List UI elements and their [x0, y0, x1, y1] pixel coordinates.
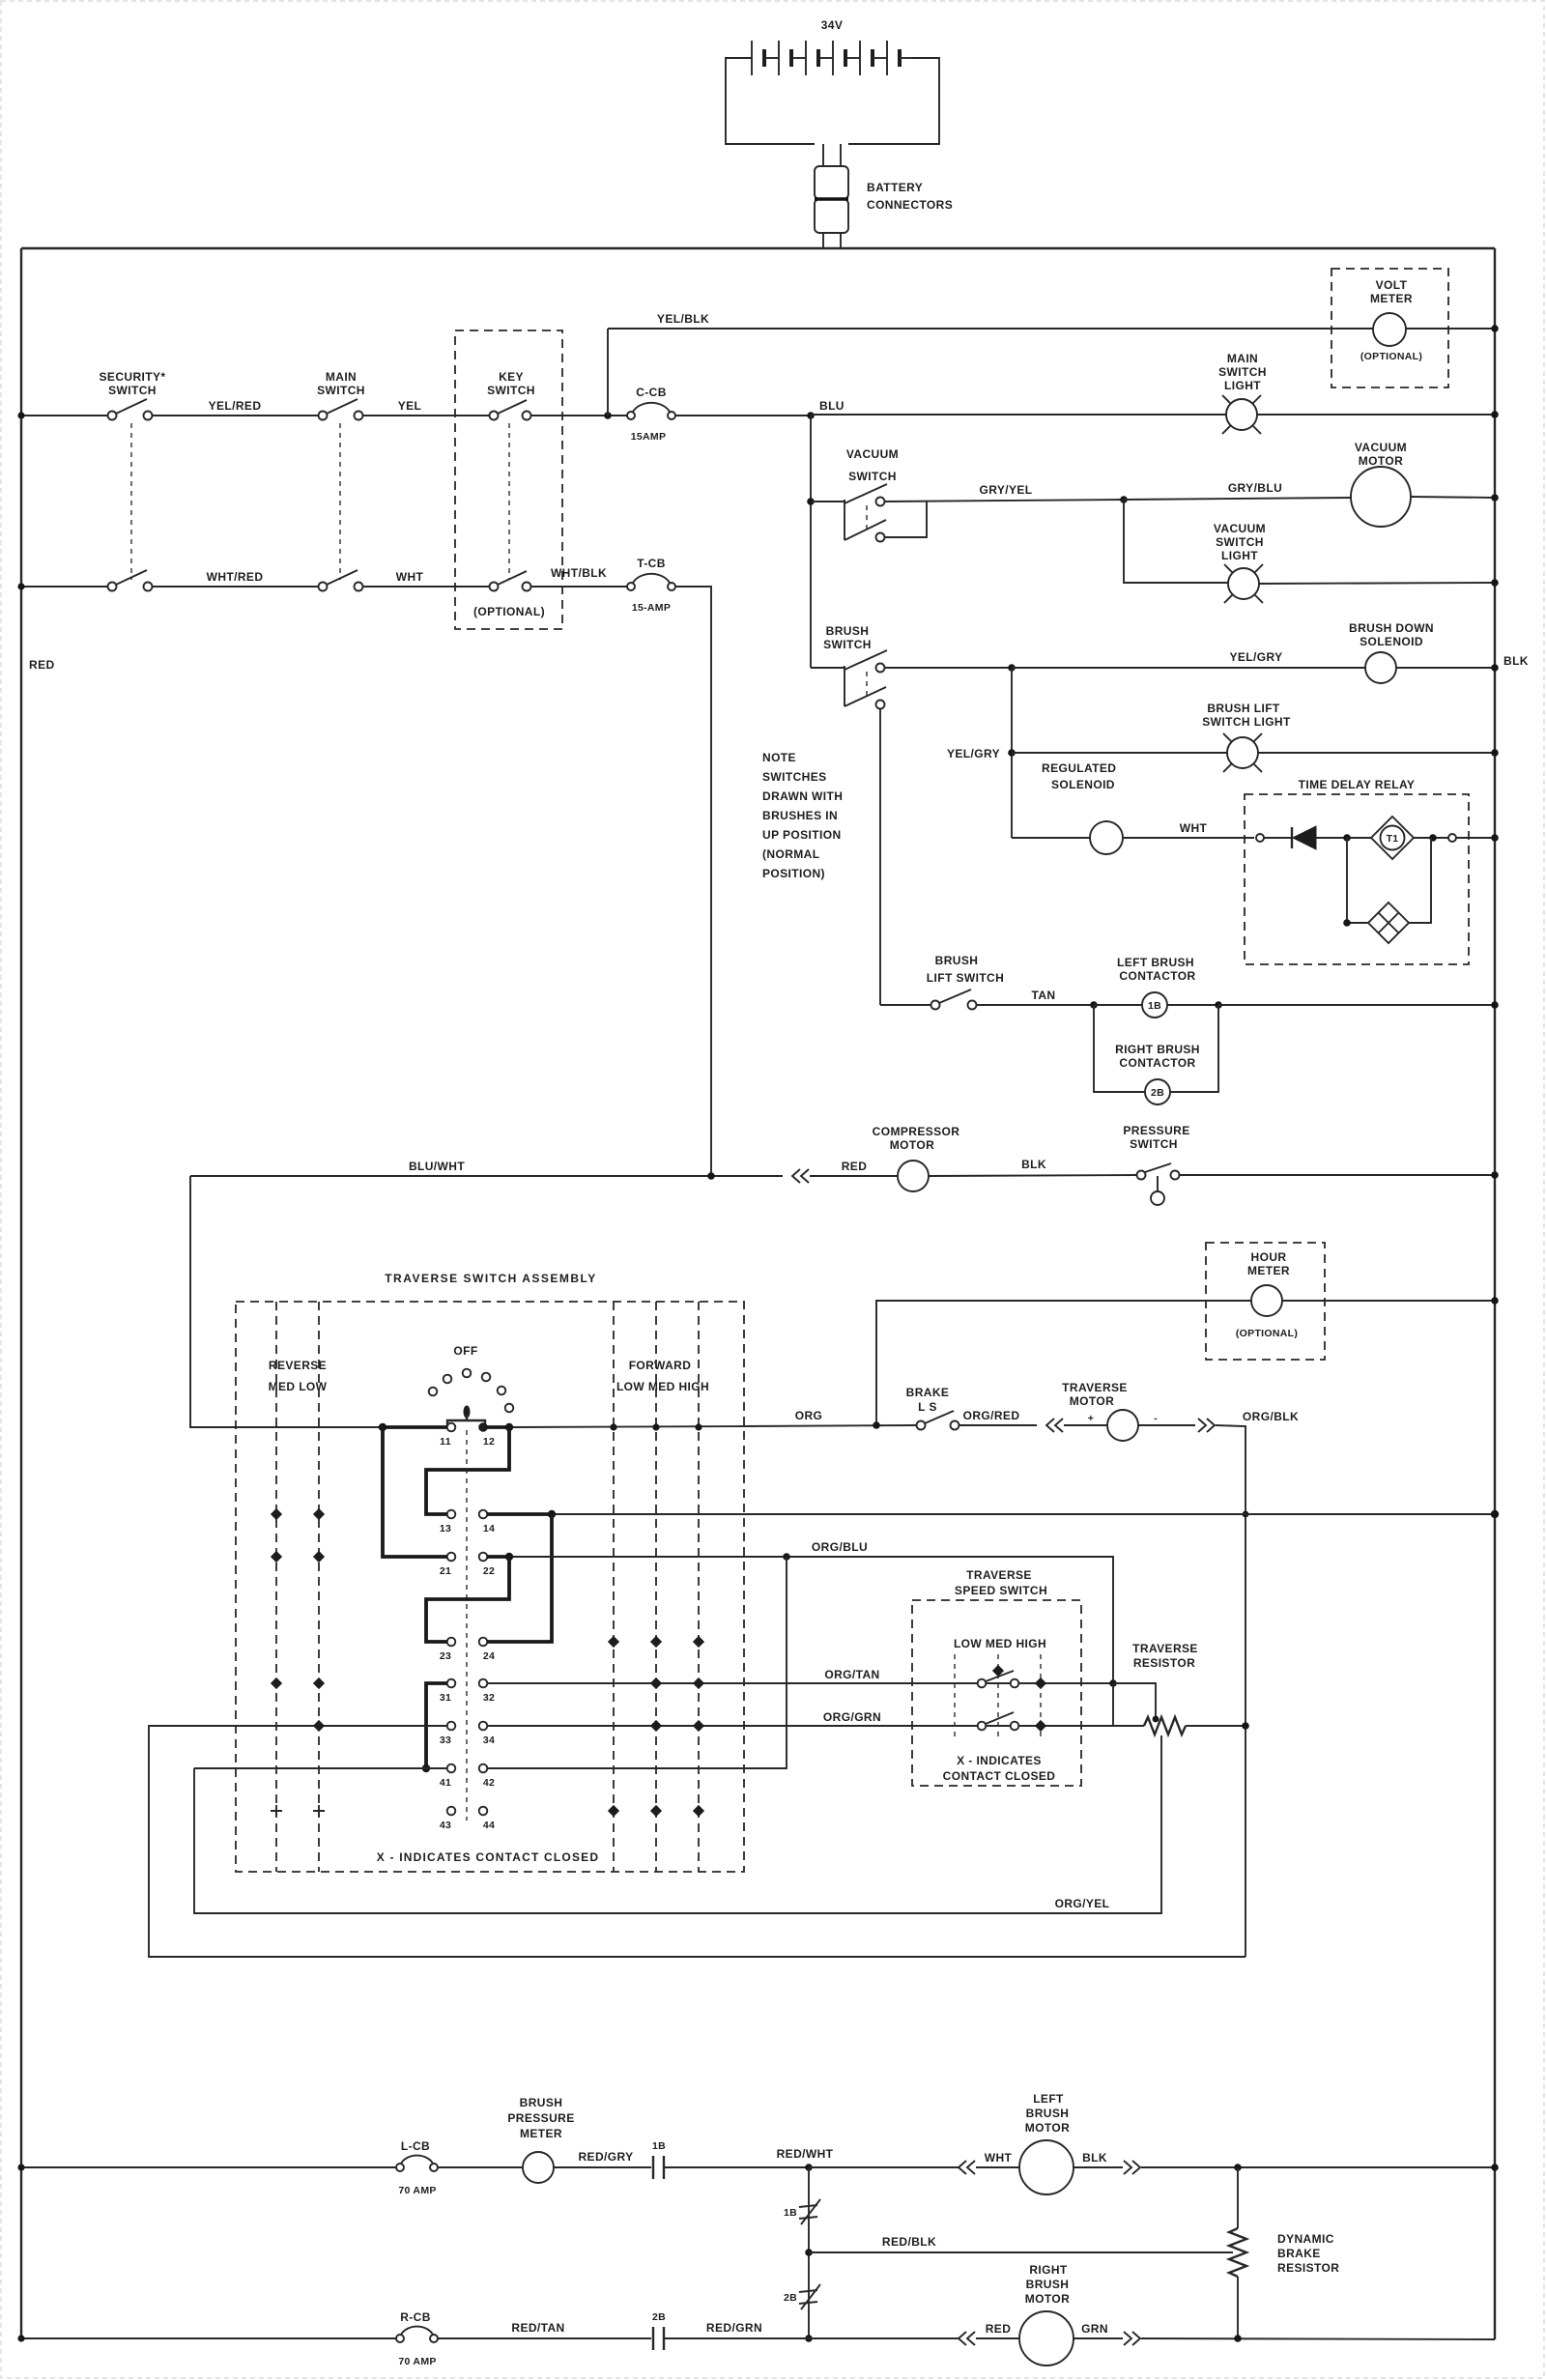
wire BLU/WHT line [190, 1175, 783, 1177]
contact 2B normally closed [799, 2284, 820, 2309]
motor traverse motor [1107, 1410, 1138, 1441]
node junction contactor left [1090, 1001, 1098, 1009]
wire YEL/BLK volt meter line [608, 328, 1495, 330]
svg-text:GRY/BLU: GRY/BLU [1228, 481, 1282, 495]
volt meter dashed box [1331, 269, 1448, 387]
wire right brush contactor loop left [1094, 1005, 1145, 1092]
label pins 13 14 [440, 1523, 495, 1534]
svg-text:24: 24 [483, 1650, 495, 1662]
svg-text:DYNAMIC: DYNAMIC [1277, 2232, 1334, 2246]
svg-text:ORG/RED: ORG/RED [963, 1409, 1020, 1422]
svg-text:YEL: YEL [398, 399, 422, 413]
svg-text:BLK: BLK [1503, 654, 1529, 668]
wire left motor to right bus [1141, 2166, 1495, 2168]
wire rotor common row 11 left [379, 1425, 447, 1429]
contact 2B normally open [653, 2327, 664, 2350]
wire link ORG/TAN to ORG/GRN row [1112, 1683, 1114, 1726]
svg-text:CONTACTOR: CONTACTOR [1119, 969, 1195, 983]
switch S3 key switch pole 1 [490, 400, 531, 420]
battery cell 4 [833, 41, 860, 75]
linkage security switch [130, 423, 132, 580]
wire WHT [363, 586, 490, 588]
svg-text:RED: RED [986, 2322, 1012, 2336]
svg-text:RED/GRY: RED/GRY [578, 2150, 633, 2164]
svg-text:T1: T1 [1387, 833, 1399, 845]
label pins 41 42 [440, 1777, 495, 1789]
svg-text:REGULATED: REGULATED [1042, 761, 1116, 775]
svg-text:MAIN: MAIN [1227, 352, 1258, 365]
svg-text:ORG/YEL: ORG/YEL [1055, 1897, 1110, 1910]
svg-text:OFF: OFF [453, 1344, 477, 1358]
svg-text:TRAVERSE SWITCH ASSEMBLY: TRAVERSE SWITCH ASSEMBLY [385, 1272, 597, 1285]
wire R-CB row left [21, 2337, 396, 2339]
svg-text:2B: 2B [1151, 1087, 1164, 1099]
wire TDR heater branch right [1409, 838, 1431, 923]
svg-text:+: + [1088, 1413, 1094, 1424]
wire row2 left bus to security pole2 [21, 586, 108, 588]
contact pair 21-22 [447, 1553, 488, 1562]
svg-text:RIGHT: RIGHT [1029, 2263, 1068, 2277]
battery connector mating line [815, 197, 848, 200]
svg-text:TIME DELAY RELAY: TIME DELAY RELAY [1299, 778, 1416, 791]
svg-text:31: 31 [440, 1692, 451, 1704]
label compressor motor [873, 1125, 960, 1152]
switch speed switch pole1 [978, 1671, 1019, 1687]
wire hour meter to right bus [1282, 1300, 1495, 1302]
wire vacuum switch light to right bus [1259, 583, 1495, 584]
svg-text:1B: 1B [652, 2140, 666, 2152]
node junction RED/BLK [805, 2249, 813, 2256]
svg-text:HOUR: HOUR [1251, 1250, 1287, 1264]
contact pair 31-32 [447, 1679, 488, 1688]
matrix dashed column forward med [655, 1302, 657, 1872]
wire left riser BLU/WHT to ORG row [190, 1176, 379, 1427]
breaker L-CB [396, 2156, 438, 2171]
wire zigzag 22 to 23 [426, 1557, 509, 1642]
node junction right bus left motor row [1491, 2164, 1499, 2171]
svg-text:VACUUM: VACUUM [1355, 441, 1407, 454]
wire RED/WHT [664, 2166, 809, 2168]
wire left bus [20, 248, 22, 2338]
svg-text:CONNECTORS: CONNECTORS [867, 198, 953, 212]
contact 1B normally open [653, 2156, 664, 2179]
svg-text:SWITCH: SWITCH [848, 470, 897, 483]
wire RED to compressor motor [810, 1175, 898, 1177]
traverse speed switch dashed box [912, 1600, 1081, 1786]
svg-text:SWITCH: SWITCH [1130, 1137, 1178, 1151]
wire row41 left loop ORG/YEL [194, 1735, 1161, 1913]
contact pair 33-34 [447, 1722, 488, 1731]
label main switch light [1218, 352, 1267, 392]
svg-text:SWITCH: SWITCH [317, 384, 365, 397]
wire contactor line to right bus [1218, 1004, 1495, 1006]
wire BLU line to main switch light [811, 414, 1226, 416]
connector plug right brush motor right [1124, 2332, 1140, 2345]
svg-text:TRAVERSE: TRAVERSE [1132, 1642, 1198, 1655]
matrix dashed column reverse med [275, 1302, 277, 1872]
svg-text:ORG/BLK: ORG/BLK [1243, 1410, 1299, 1423]
svg-text:R-CB: R-CB [400, 2310, 431, 2324]
svg-text:LEFT BRUSH: LEFT BRUSH [1117, 956, 1194, 969]
wire brush switch to YEL/GRY junction [885, 667, 1012, 669]
wire YEL/GRY to brush down solenoid [1012, 667, 1365, 669]
wire RED/GRY [554, 2166, 651, 2168]
svg-text:(OPTIONAL): (OPTIONAL) [1236, 1328, 1298, 1339]
lamp vacuum switch light [1224, 564, 1263, 603]
switch speed switch pole2 [978, 1712, 1019, 1730]
matrix dashed column forward low [613, 1302, 615, 1872]
svg-text:YEL/GRY: YEL/GRY [947, 747, 1000, 760]
label reverse med low [269, 1359, 328, 1393]
svg-text:SWITCH LIGHT: SWITCH LIGHT [1202, 715, 1291, 729]
svg-text:VOLT: VOLT [1376, 278, 1408, 292]
resistor traverse resistor [1144, 1717, 1186, 1735]
svg-text:44: 44 [483, 1820, 495, 1831]
svg-text:MOTOR: MOTOR [890, 1138, 934, 1152]
wire row41 line [194, 1767, 447, 1769]
label brush lift switch [927, 954, 1004, 985]
switch S1 security pole 2 [108, 570, 153, 591]
breaker R-CB [396, 2327, 438, 2342]
wire vacuum branch riser [810, 416, 812, 668]
wire 14 to junction [487, 1512, 552, 1516]
rotary switch position circles [429, 1369, 514, 1413]
wire to brush lift switch [880, 1004, 930, 1006]
node junction YEL/BLK riser [604, 412, 612, 419]
node junction TDR right [1429, 834, 1437, 842]
node junction hour meter drop [873, 1421, 880, 1429]
svg-text:BLK: BLK [1021, 1158, 1046, 1171]
battery connectors label [867, 181, 953, 212]
svg-text:MOTOR: MOTOR [1359, 454, 1403, 468]
svg-text:SOLENOID: SOLENOID [1360, 635, 1423, 648]
connector plug compressor left [792, 1169, 809, 1183]
time delay relay dashed box [1245, 794, 1469, 964]
wire pressure switch to right bus [1180, 1174, 1495, 1176]
node junction vacuum switch top [807, 498, 815, 505]
wire GRY/YEL [885, 500, 1124, 502]
linkage brush switch [866, 672, 868, 696]
wire row1 left bus to security switch [21, 415, 108, 416]
meter volt meter [1373, 313, 1406, 346]
wire solenoid to right bus [1396, 667, 1495, 669]
switch vacuum switch pole2 [845, 502, 927, 542]
svg-text:GRY/YEL: GRY/YEL [979, 483, 1032, 497]
svg-text:CONTACTOR: CONTACTOR [1119, 1056, 1195, 1070]
switch vacuum switch pole1 [811, 484, 887, 540]
wire key switch to C-CB [531, 415, 629, 416]
label traverse speed switch [955, 1568, 1047, 1597]
node junction right bus BLU row [1491, 411, 1499, 418]
wire hour meter feeder [876, 1301, 1251, 1425]
node junction BLU [807, 412, 815, 419]
svg-text:LIFT SWITCH: LIFT SWITCH [927, 971, 1004, 985]
wire row11 right jumper [487, 1425, 509, 1429]
svg-text:PRESSURE: PRESSURE [1123, 1124, 1189, 1137]
wire BLK left motor [1074, 2166, 1123, 2168]
svg-text:33: 33 [440, 1735, 451, 1746]
wire brush lift light to right bus [1258, 752, 1495, 754]
contact pair 13-14 [447, 1510, 488, 1519]
solenoid regulated solenoid [1090, 821, 1123, 854]
label brake L S [906, 1386, 950, 1414]
wire battery loop to connector [823, 144, 841, 166]
node taps row11 forward columns [610, 1423, 701, 1430]
node junction left bus R-CB row [17, 2335, 24, 2341]
switch brush lift switch [931, 989, 977, 1010]
speed switch dashed column high [1040, 1654, 1042, 1739]
node junction right bus TDR [1491, 834, 1499, 842]
svg-text:RED: RED [842, 1160, 868, 1173]
wire right motor to right bus corner [1141, 2338, 1495, 2339]
label brush down solenoid [1349, 621, 1434, 648]
contact closed marks speed switch [993, 1666, 1046, 1732]
switch brake switch [917, 1411, 959, 1430]
svg-text:L S: L S [918, 1400, 937, 1414]
svg-text:SWITCHES: SWITCHES [762, 770, 827, 784]
svg-text:BLU: BLU [819, 399, 845, 413]
svg-text:42: 42 [483, 1777, 495, 1789]
node junction row11 left [379, 1423, 386, 1431]
wire riser to volt meter line [607, 329, 609, 416]
svg-text:NOTE: NOTE [762, 751, 796, 764]
svg-text:(NORMAL: (NORMAL [762, 847, 819, 861]
breaker C-CB [627, 403, 675, 419]
wire right bus [1494, 248, 1496, 2339]
label pins 31 32 [440, 1692, 495, 1704]
wire row21 ORG/BLU line [513, 1557, 1113, 1683]
speed switch dashed column med [997, 1654, 999, 1739]
node junction brush circuits [1008, 664, 1016, 672]
node resistor top tap [1153, 1716, 1159, 1723]
meter brush pressure meter [523, 2152, 554, 2183]
svg-text:70 AMP: 70 AMP [398, 2185, 436, 2196]
svg-text:REVERSE: REVERSE [269, 1359, 327, 1372]
wire ORG/RED [959, 1424, 1037, 1426]
node junction contactor right [1215, 1001, 1222, 1009]
label left brush motor [1025, 2092, 1070, 2135]
svg-text:C-CB: C-CB [636, 386, 667, 399]
svg-text:CONTACT CLOSED: CONTACT CLOSED [943, 1769, 1056, 1783]
node junction row41 [422, 1764, 430, 1772]
svg-text:METER: METER [520, 2127, 562, 2140]
svg-text:12: 12 [483, 1436, 495, 1448]
label brush lift switch light [1202, 702, 1291, 729]
svg-text:BRUSHES IN: BRUSHES IN [762, 809, 838, 822]
svg-text:15AMP: 15AMP [631, 431, 667, 443]
wire diode to T1 [1316, 837, 1372, 839]
hour meter dashed box [1206, 1243, 1325, 1360]
diode D1 [1292, 826, 1316, 849]
label main switch [317, 370, 365, 397]
lamp brush lift switch light [1223, 733, 1262, 772]
linkage main switch [339, 423, 341, 580]
svg-text:RED: RED [29, 658, 55, 672]
battery cell 1 [752, 41, 779, 75]
node junction right bus vacuum motor [1491, 494, 1499, 502]
wire interlock column [808, 2167, 810, 2338]
switch S2 main switch pole 1 [319, 399, 363, 420]
label traverse resistor [1132, 1642, 1198, 1670]
switch pressure switch [1137, 1163, 1180, 1205]
node junction heater left [1343, 919, 1351, 927]
wire WHT to time delay relay [1123, 837, 1254, 839]
svg-text:RESISTOR: RESISTOR [1133, 1656, 1195, 1670]
svg-text:BLK: BLK [1082, 2151, 1107, 2165]
label brush switch [823, 624, 872, 651]
connector plug left brush motor left [959, 2161, 975, 2174]
wire to regulated solenoid [1012, 837, 1090, 839]
traverse switch assembly dashed box [236, 1302, 744, 1872]
svg-text:(OPTIONAL): (OPTIONAL) [1360, 351, 1422, 362]
wire row33 ORG/GRN line [487, 1725, 1144, 1727]
wire WHT/BLK [531, 586, 629, 588]
node junction TDR left [1343, 834, 1351, 842]
svg-text:WHT/RED: WHT/RED [207, 570, 264, 584]
wire contactor to right junction [1167, 1004, 1218, 1006]
svg-text:LOW MED HIGH: LOW MED HIGH [954, 1637, 1046, 1650]
linkage key switch [508, 423, 510, 580]
connector plug traverse motor right [1198, 1419, 1215, 1432]
svg-text:TRAVERSE: TRAVERSE [1062, 1381, 1128, 1394]
label pins 33 34 [440, 1735, 495, 1746]
svg-text:WHT: WHT [985, 2151, 1013, 2165]
svg-text:TRAVERSE: TRAVERSE [966, 1568, 1032, 1582]
svg-text:2B: 2B [652, 2311, 666, 2323]
node junction row21 right [505, 1553, 513, 1561]
svg-text:POSITION): POSITION) [762, 867, 825, 880]
wire BLK to pressure switch [929, 1175, 1137, 1176]
battery cell 3 [806, 41, 833, 75]
linkage vacuum switch [866, 505, 868, 530]
label vacuum switch [846, 447, 899, 483]
svg-text:BRUSH: BRUSH [520, 2096, 563, 2109]
svg-text:RED/BLK: RED/BLK [882, 2235, 936, 2249]
wire YEL/RED [153, 415, 319, 416]
rotary switch rotor [447, 1406, 485, 1427]
node junction brush lift light line [1008, 749, 1016, 757]
contactor coil 2B right brush contactor [1145, 1079, 1170, 1104]
wire YEL [363, 415, 490, 416]
svg-text:BRUSH: BRUSH [1026, 2107, 1070, 2120]
wire brush switch pole2 drop [879, 709, 881, 1005]
wire to traverse motor [1064, 1424, 1107, 1426]
wire connector to top bus [823, 233, 841, 248]
svg-text:RED/GRN: RED/GRN [706, 2321, 762, 2335]
svg-text:2B: 2B [784, 2292, 797, 2304]
svg-text:SOLENOID: SOLENOID [1051, 778, 1115, 791]
node junction RED/WHT [805, 2164, 813, 2171]
speed switch dashed column low [954, 1654, 956, 1739]
node junction ORG/TAN with ORG/BLU riser [1109, 1679, 1117, 1687]
label pins 21 22 [440, 1565, 495, 1577]
svg-text:BRAKE: BRAKE [906, 1386, 950, 1399]
wire zigzag 14 down to 24 [487, 1514, 552, 1642]
node junction right bus compressor row [1491, 1171, 1499, 1179]
svg-text:X - INDICATES CONTACT CLOSED: X - INDICATES CONTACT CLOSED [377, 1850, 600, 1864]
wire RED to right brush motor [976, 2337, 1019, 2339]
wire TAN [977, 1004, 1094, 1006]
svg-text:YEL/RED: YEL/RED [209, 399, 262, 413]
label hour meter [1247, 1250, 1290, 1277]
wire main switch light to right bus [1257, 414, 1495, 416]
contactor coil 1B left brush contactor [1142, 992, 1167, 1018]
switch brush switch pole2 [845, 687, 886, 709]
wire row11 to box edge ORG [513, 1426, 744, 1427]
wire vacuum motor to right bus [1411, 497, 1495, 498]
svg-text:BRUSH LIFT: BRUSH LIFT [1207, 702, 1280, 715]
contact closed X marks traverse matrix [271, 1509, 703, 1817]
wire GRN right motor [1074, 2337, 1123, 2339]
svg-text:BATTERY: BATTERY [867, 181, 923, 194]
svg-text:FORWARD: FORWARD [629, 1359, 692, 1372]
svg-text:SPEED SWITCH: SPEED SWITCH [955, 1584, 1047, 1597]
svg-text:YEL/GRY: YEL/GRY [1229, 650, 1282, 664]
svg-text:WHT/BLK: WHT/BLK [551, 566, 607, 580]
svg-text:SWITCH: SWITCH [823, 638, 872, 651]
note text block [762, 751, 843, 880]
svg-text:11: 11 [440, 1436, 451, 1448]
wire 22 to junction [487, 1555, 509, 1559]
svg-text:BRAKE: BRAKE [1277, 2247, 1321, 2260]
wire ORG/TAN to resistor tap [1113, 1683, 1156, 1719]
solenoid brush down solenoid [1365, 652, 1396, 683]
wire WHT to left brush motor [976, 2166, 1019, 2168]
wire GRY/BLU to vacuum motor [1124, 498, 1351, 500]
wire row41 right riser to ORG/BLU [487, 1557, 787, 1768]
wire C-CB to BLU junction [675, 415, 811, 416]
terminal TDR output [1448, 834, 1456, 842]
node junction left bus row2 [17, 583, 24, 589]
wire right brush contactor loop right [1170, 1005, 1218, 1092]
svg-text:VACUUM: VACUUM [846, 447, 899, 461]
node junction resistor right [1242, 1722, 1249, 1730]
label pins 11 12 [440, 1436, 495, 1448]
node junction ORG/BLK with row 13-14 line [1243, 1511, 1249, 1518]
heater element TDR [1368, 903, 1409, 943]
svg-text:L-CB: L-CB [401, 2139, 430, 2153]
wire ORG/BLK corner down [1216, 1425, 1245, 1957]
svg-text:RED/WHT: RED/WHT [777, 2147, 834, 2161]
connector plug left brush motor right [1124, 2161, 1140, 2174]
wire RED/BLK to dynamic brake resistor [809, 2251, 1233, 2253]
svg-text:ORG/BLU: ORG/BLU [812, 1540, 868, 1554]
svg-text:MOTOR: MOTOR [1025, 2121, 1070, 2135]
battery connector upper half [815, 166, 848, 199]
svg-text:BRUSH: BRUSH [1026, 2278, 1070, 2291]
battery connector lower half [815, 199, 848, 233]
svg-text:METER: METER [1370, 292, 1413, 305]
battery cell 2 [779, 41, 806, 75]
connector plug traverse motor left [1046, 1419, 1063, 1432]
wire L-CB to brush pressure meter [438, 2166, 523, 2168]
svg-text:14: 14 [483, 1523, 495, 1534]
svg-text:LEFT: LEFT [1033, 2092, 1064, 2106]
node junction brake resistor top [1234, 2164, 1242, 2171]
wire row33 left loop [149, 1726, 1245, 1957]
wire zigzag 12 to 13 [426, 1427, 509, 1514]
node junction right bus YEL/BLK [1491, 325, 1499, 332]
svg-text:43: 43 [440, 1820, 451, 1831]
svg-text:22: 22 [483, 1565, 495, 1577]
node junction right bus row13 [1491, 1510, 1499, 1518]
svg-text:41: 41 [440, 1777, 451, 1789]
label vacuum switch light [1214, 522, 1266, 562]
breaker T-CB [627, 574, 675, 590]
meter hour meter [1251, 1285, 1282, 1316]
svg-text:BRUSH DOWN: BRUSH DOWN [1349, 621, 1434, 635]
terminal TDR input [1256, 834, 1264, 842]
